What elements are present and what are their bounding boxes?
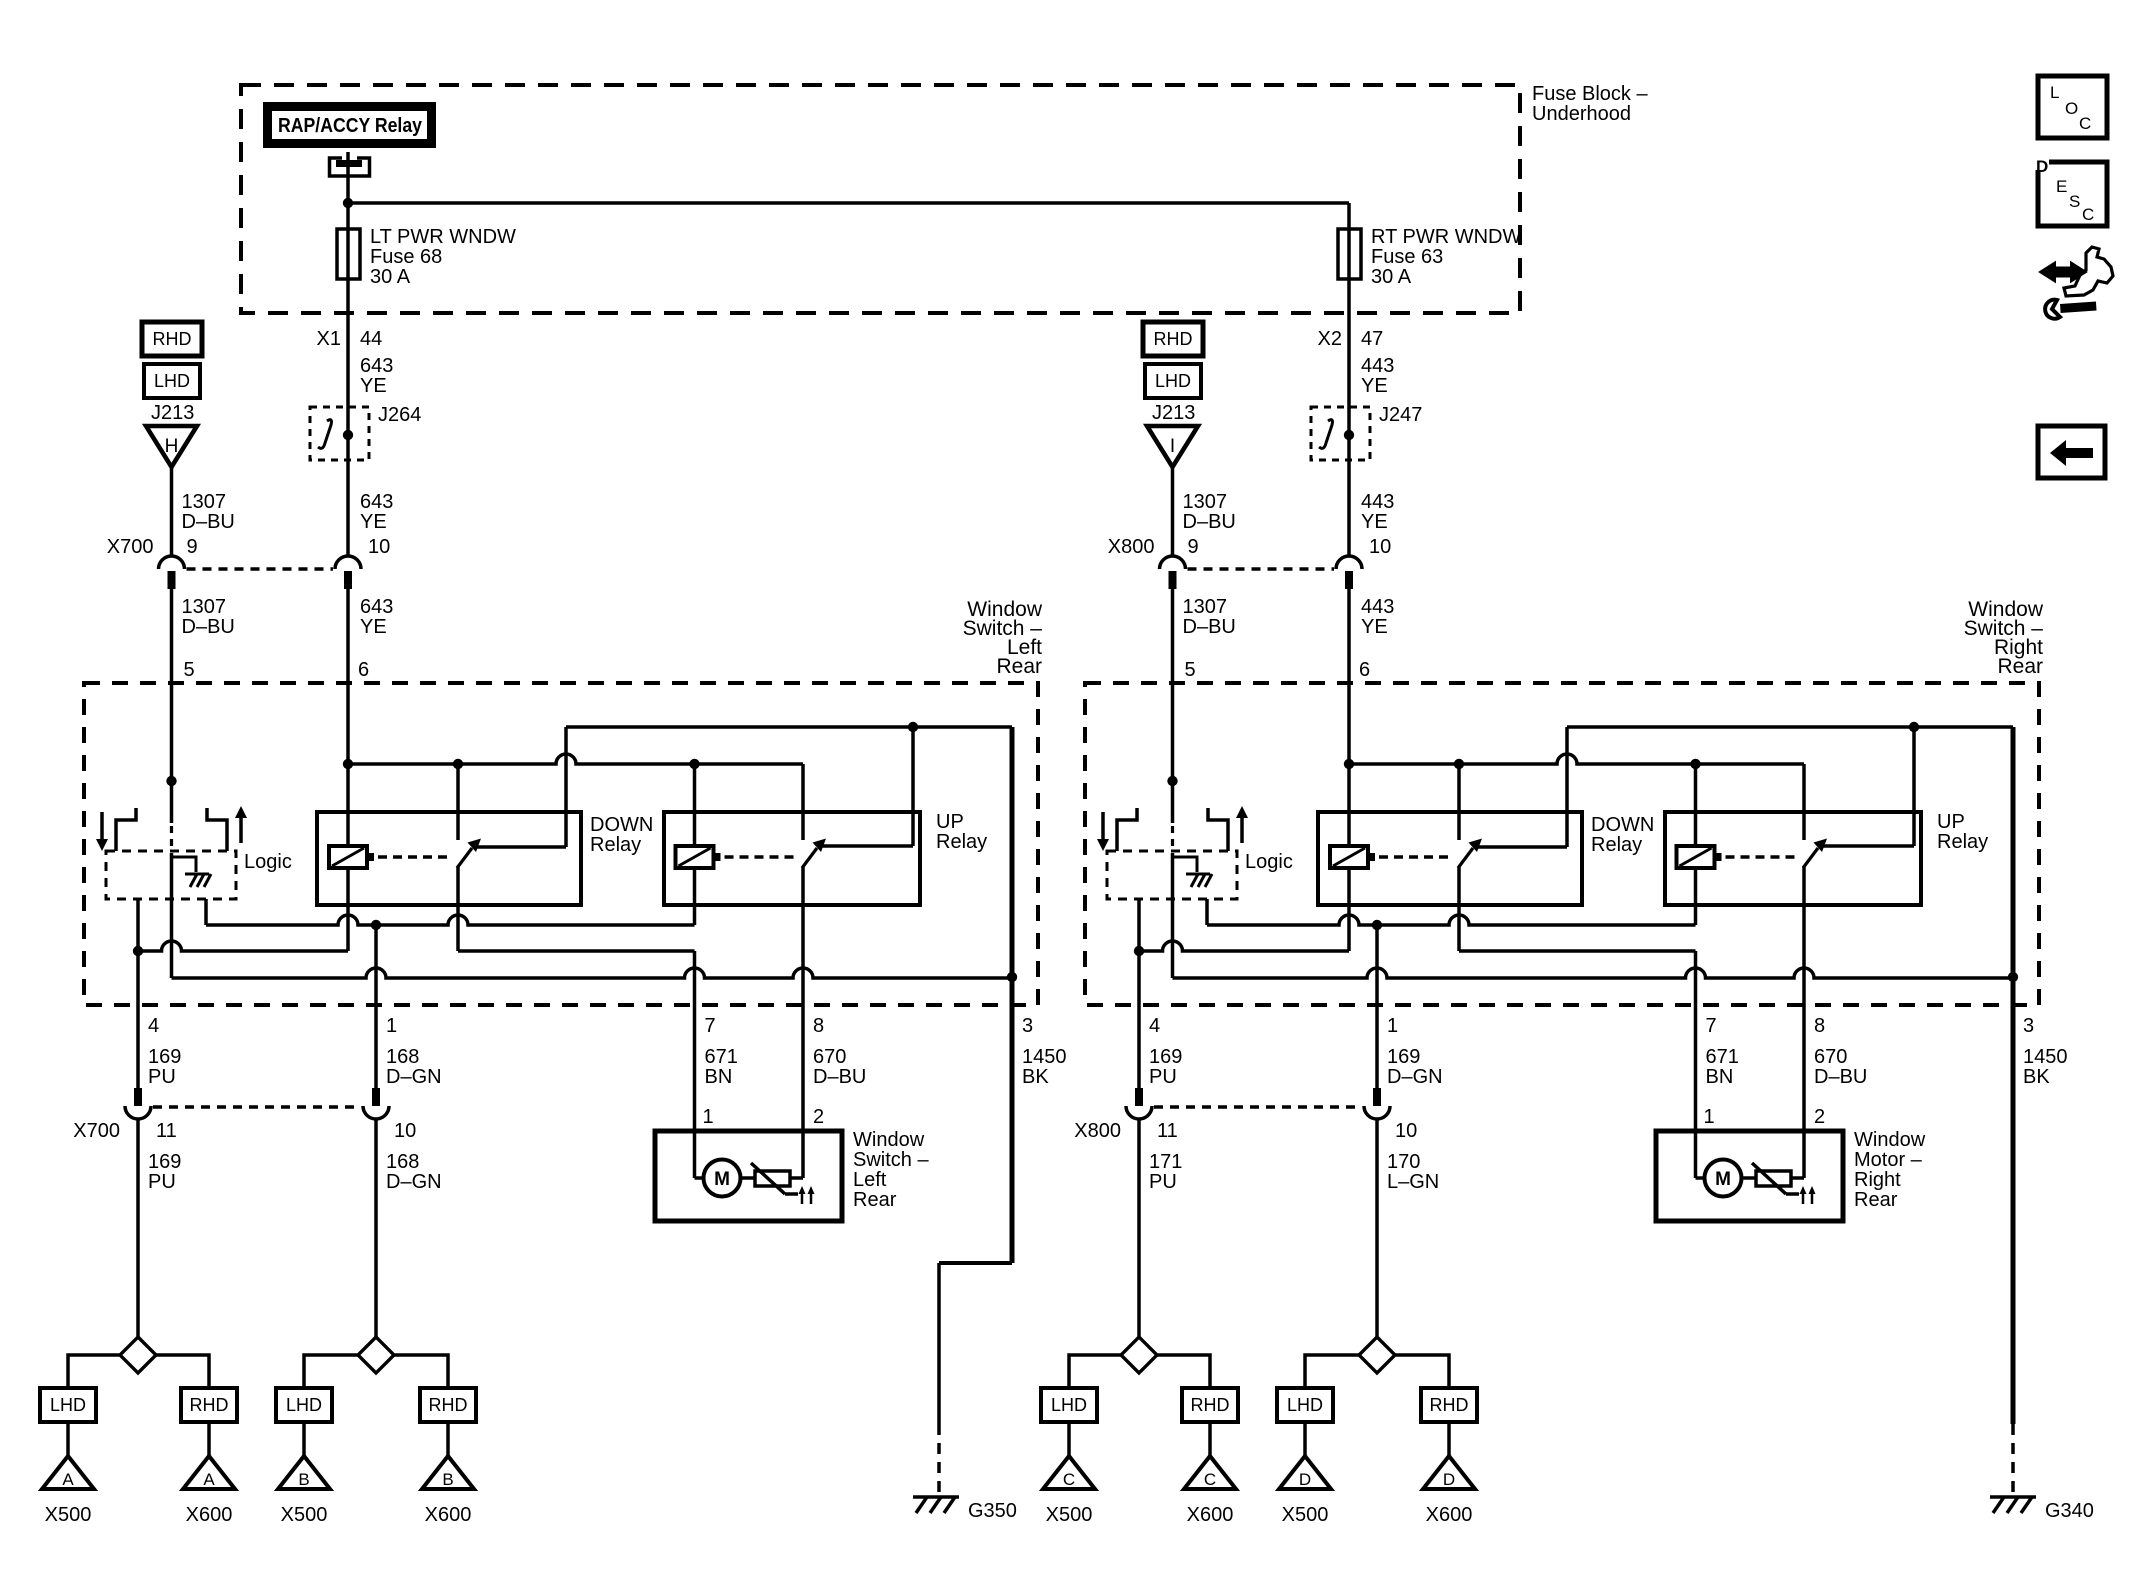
relay coil UP (left) xyxy=(676,846,721,868)
label connector X800 pins 11 10 lower xyxy=(1074,1120,1417,1142)
svg-text:D–GN: D–GN xyxy=(1387,1066,1443,1088)
svg-text:169: 169 xyxy=(1387,1046,1420,1068)
wire DOWN fixed contact (left) xyxy=(474,727,566,847)
dashed connector tie X700 lower xyxy=(153,1105,361,1109)
wire pin6 to DOWN coil (left) xyxy=(346,683,350,846)
wire DOWN fixed contact (right) xyxy=(1475,727,1567,847)
svg-text:2: 2 xyxy=(813,1106,824,1128)
svg-text:670: 670 xyxy=(1814,1046,1847,1068)
up arrow symbol (right) xyxy=(1236,806,1248,843)
wire pin5 inside switch (right) xyxy=(1171,683,1175,781)
svg-text:6: 6 xyxy=(1359,659,1370,681)
svg-text:1450: 1450 xyxy=(1022,1046,1067,1068)
dashed connector tie X800 lower xyxy=(1154,1105,1362,1109)
svg-text:D–BU: D–BU xyxy=(1183,511,1236,533)
wire diamond to LHD right pin1 branch xyxy=(1305,1355,1359,1388)
wire 1307 D-BU to switch pin5 (right) xyxy=(1171,589,1175,683)
mechanical dashed link (right) xyxy=(1171,826,1174,851)
label wire 670 D-BU pin8 (right) xyxy=(1814,1046,1867,1088)
down arrow symbol (left) xyxy=(96,812,108,851)
box RHD right pin1 branch xyxy=(1421,1388,1477,1422)
svg-text:Relay: Relay xyxy=(590,834,641,856)
box RHD (right) xyxy=(1143,322,1203,356)
label X600 right pin4 branch xyxy=(1187,1504,1234,1526)
svg-text:YE: YE xyxy=(1361,375,1388,397)
label pin 5 (right) xyxy=(1185,659,1196,681)
svg-text:30 A: 30 A xyxy=(1371,266,1412,288)
label G340 xyxy=(2045,1500,2094,1522)
svg-text:X2: X2 xyxy=(1318,328,1342,350)
label pin 1 (left) xyxy=(386,1015,397,1037)
node junction UP coil feed (right) xyxy=(1690,759,1700,769)
svg-text:L: L xyxy=(2050,83,2059,102)
svg-text:RHD: RHD xyxy=(153,329,192,349)
label pin 1 (right) xyxy=(1387,1015,1398,1037)
label wire 443 YE lower xyxy=(1361,596,1394,638)
icon box LOC xyxy=(2038,76,2107,138)
wire 643 to switch pin6 (left) xyxy=(346,589,350,683)
label X500 left pin4 branch xyxy=(45,1504,92,1526)
node junction pin4 bus (left) xyxy=(133,946,143,956)
svg-text:C: C xyxy=(2082,205,2094,224)
node splice dot J264 xyxy=(343,430,353,440)
label wire 1450 BK pin3 (left) xyxy=(1022,1046,1067,1088)
bus pin4 to DOWN coil (left) xyxy=(138,868,348,951)
wire through logic box (left) xyxy=(170,853,174,978)
node junction on pin5 wire (right) xyxy=(1167,776,1177,786)
label pin 5 (left) xyxy=(184,659,195,681)
label wire 643 YE upper xyxy=(360,355,393,397)
svg-text:2: 2 xyxy=(1814,1106,1825,1128)
label wire 1307 D-BU upper (right) xyxy=(1183,491,1236,533)
label connector X700 pins 11 10 lower xyxy=(73,1120,416,1142)
wire 168 to diamond (left) xyxy=(374,1119,378,1337)
svg-text:169: 169 xyxy=(148,1151,181,1173)
svg-text:643: 643 xyxy=(360,355,393,377)
svg-text:C: C xyxy=(2079,114,2091,133)
svg-text:670: 670 xyxy=(813,1046,846,1068)
label X1 pin 44 xyxy=(317,328,383,350)
diamond splice right pin4 branch xyxy=(1121,1337,1157,1373)
dashed actuator DOWN (left) xyxy=(378,855,449,859)
relay box UP (left) xyxy=(664,812,920,905)
switch arm UP relay (left) xyxy=(802,839,826,869)
label Logic (right) xyxy=(1245,851,1293,873)
down contact step (left) xyxy=(116,808,136,851)
wire RHD to triangle left pin1 branch xyxy=(446,1422,450,1456)
down contact step (right) xyxy=(1117,808,1137,851)
svg-text:8: 8 xyxy=(813,1015,824,1037)
svg-text:Switch –: Switch – xyxy=(853,1149,929,1171)
splice J247 dashed box xyxy=(1311,404,1422,460)
label UP Relay (left) xyxy=(936,811,987,853)
label X600 left pin4 branch xyxy=(186,1504,233,1526)
svg-text:10: 10 xyxy=(394,1120,416,1142)
relay coil DOWN (left) xyxy=(329,846,374,868)
label wire 171 PU (right) xyxy=(1149,1151,1182,1193)
logic dashed box (left) xyxy=(106,851,236,899)
connector triangle A X500 left pin4 branch xyxy=(42,1456,94,1489)
up contact step (right) xyxy=(1208,808,1228,851)
label window motor right rear xyxy=(1854,1129,1926,1211)
svg-text:O: O xyxy=(2065,99,2078,118)
ground G340 symbol xyxy=(1990,1497,2036,1513)
wire 1450 BK to G350 xyxy=(939,1005,1012,1493)
label Fuse Block - Underhood xyxy=(1532,83,1648,125)
svg-text:RHD: RHD xyxy=(190,1395,229,1415)
svg-text:D–BU: D–BU xyxy=(1183,616,1236,638)
wire LHD to triangle right pin4 branch xyxy=(1067,1422,1071,1456)
svg-text:G340: G340 xyxy=(2045,1500,2094,1522)
svg-text:30 A: 30 A xyxy=(370,266,411,288)
relay coil DOWN (right) xyxy=(1330,846,1375,868)
wire pin5 inside switch (left) xyxy=(170,683,174,781)
svg-text:Relay: Relay xyxy=(936,831,987,853)
label wire 168 D–GN pin1 (left) xyxy=(386,1046,442,1088)
svg-text:47: 47 xyxy=(1361,328,1383,350)
svg-text:D: D xyxy=(1443,1470,1455,1489)
label wire 170 L–GN (right) xyxy=(1387,1151,1439,1193)
svg-text:D: D xyxy=(1299,1470,1311,1489)
svg-text:7: 7 xyxy=(1706,1015,1717,1037)
box LHD right pin4 branch xyxy=(1041,1388,1097,1422)
svg-text:LHD: LHD xyxy=(1155,371,1191,391)
label pin 7 (right) xyxy=(1706,1015,1717,1037)
svg-text:643: 643 xyxy=(360,491,393,513)
label Logic (left) xyxy=(244,851,292,873)
svg-text:D: D xyxy=(2036,157,2048,176)
node splice dot J247 xyxy=(1344,430,1354,440)
svg-text:Motor –: Motor – xyxy=(1854,1149,1923,1171)
relay coil UP (right) xyxy=(1677,846,1722,868)
ground bus top (left) xyxy=(566,727,1012,1005)
svg-text:RAP/ACCY Relay: RAP/ACCY Relay xyxy=(278,115,423,137)
svg-text:443: 443 xyxy=(1361,491,1394,513)
svg-text:YE: YE xyxy=(360,375,387,397)
label window switch right rear xyxy=(1964,598,2044,678)
wire pin8 to motor (right) xyxy=(1802,1005,1806,1178)
wire through logic box (right) xyxy=(1171,853,1175,978)
bus pin4 to DOWN coil (right) xyxy=(1139,868,1349,951)
wire 1307 D-BU from J213 (left) xyxy=(170,467,174,557)
wire feeder to right fuse xyxy=(348,203,1349,280)
dashed actuator UP (right) xyxy=(1726,855,1796,859)
svg-text:10: 10 xyxy=(1395,1120,1417,1142)
wire diamond to RHD right pin1 branch xyxy=(1395,1355,1449,1388)
svg-text:DOWN: DOWN xyxy=(1591,814,1654,836)
svg-text:X800: X800 xyxy=(1074,1120,1121,1142)
label motor pins 1 2 (left) xyxy=(703,1106,825,1128)
svg-text:DOWN: DOWN xyxy=(590,814,653,836)
logic bus to UP coil (right) xyxy=(1207,868,1696,925)
label wire 443 YE mid xyxy=(1361,491,1394,533)
label UP Relay (right) xyxy=(1937,811,1988,853)
dashed connector tie X800 upper xyxy=(1188,567,1335,571)
label wire 643 YE mid xyxy=(360,491,393,533)
motor thermistor (left) xyxy=(740,1163,803,1194)
label wire 168 D–GN (left) xyxy=(386,1151,442,1193)
svg-text:1: 1 xyxy=(1704,1106,1715,1128)
label pin 8 (right) xyxy=(1814,1015,1825,1037)
wire 443 fuse to connector (right) xyxy=(1347,279,1351,557)
svg-text:5: 5 xyxy=(1185,659,1196,681)
node junction pin1 (right) xyxy=(1372,920,1382,930)
svg-text:YE: YE xyxy=(1361,616,1388,638)
svg-text:LHD: LHD xyxy=(154,371,190,391)
connector X800 pin 10 symbol xyxy=(1336,556,1362,589)
ground hook inside logic (right) xyxy=(1173,857,1213,887)
up contact step (left) xyxy=(207,808,227,851)
node junction DOWN arm feed (right) xyxy=(1454,759,1464,769)
svg-text:X500: X500 xyxy=(1282,1504,1329,1526)
diamond splice right pin1 branch xyxy=(1359,1337,1395,1373)
svg-text:S: S xyxy=(2069,192,2080,211)
svg-text:Fuse 63: Fuse 63 xyxy=(1371,246,1443,268)
svg-text:X500: X500 xyxy=(281,1504,328,1526)
svg-text:PU: PU xyxy=(148,1066,176,1088)
logic box right stub (right) xyxy=(1205,899,1209,925)
fuse F63 RT PWR WNDW xyxy=(1338,229,1361,279)
label pin 4 (right) xyxy=(1149,1015,1160,1037)
label pin 3 (right) xyxy=(2023,1015,2034,1037)
mechanical dashed link (left) xyxy=(170,826,173,851)
svg-text:J213: J213 xyxy=(1152,402,1195,424)
svg-text:671: 671 xyxy=(705,1046,738,1068)
svg-text:A: A xyxy=(62,1470,74,1489)
diamond splice left pin1 branch xyxy=(358,1337,394,1373)
relay box DOWN (right) xyxy=(1318,812,1582,905)
feed bus inside switch (left) xyxy=(348,754,803,840)
logic dashed box (right) xyxy=(1107,851,1237,899)
wire 643 fuse to connector (left) xyxy=(346,279,350,557)
label wire 169 D–GN pin1 (right) xyxy=(1387,1046,1443,1088)
svg-text:LHD: LHD xyxy=(50,1395,86,1415)
svg-text:BK: BK xyxy=(1022,1066,1049,1088)
label wire 169 PU pin4 (left) xyxy=(148,1046,181,1088)
connector triangle A X600 left pin4 branch xyxy=(183,1456,235,1489)
svg-text:9: 9 xyxy=(1188,536,1199,558)
svg-text:3: 3 xyxy=(2023,1015,2034,1037)
wire pin1 to X800 10 (right) xyxy=(1364,1005,1390,1119)
svg-text:Relay: Relay xyxy=(1591,834,1642,856)
svg-text:YE: YE xyxy=(360,511,387,533)
svg-text:1307: 1307 xyxy=(1183,596,1228,618)
svg-text:B: B xyxy=(298,1470,309,1489)
node junction UP contact riser (right) xyxy=(1909,722,1919,732)
ground bus top (right) xyxy=(1567,727,2013,1005)
dashed actuator DOWN (right) xyxy=(1379,855,1450,859)
wire RHD to triangle left pin4 branch xyxy=(207,1422,211,1456)
svg-text:J264: J264 xyxy=(378,404,421,426)
label window switch left rear xyxy=(963,598,1043,678)
window motor box (right) xyxy=(1656,1131,1843,1221)
svg-text:8: 8 xyxy=(1814,1015,1825,1037)
wire diamond to LHD left pin1 branch xyxy=(304,1355,358,1388)
svg-text:H: H xyxy=(165,436,179,457)
switch arm UP relay (right) xyxy=(1803,839,1827,869)
box LHD left pin1 branch xyxy=(276,1388,332,1422)
thermal arrows (left) xyxy=(799,1186,815,1204)
dashed actuator UP (left) xyxy=(725,855,795,859)
svg-text:E: E xyxy=(2056,177,2067,196)
relay K RAP/ACCY label box xyxy=(263,102,436,148)
node junction DOWN arm feed (left) xyxy=(453,759,463,769)
node junction UP contact riser (left) xyxy=(908,722,918,732)
svg-text:169: 169 xyxy=(148,1046,181,1068)
svg-text:170: 170 xyxy=(1387,1151,1420,1173)
label pin 8 (left) xyxy=(813,1015,824,1037)
svg-text:Window: Window xyxy=(1854,1129,1926,1151)
label wire 169 PU (left) xyxy=(148,1151,181,1193)
svg-text:C: C xyxy=(1063,1470,1075,1489)
node junction ground bus to 1450 BK (left) xyxy=(1007,972,1017,982)
svg-text:643: 643 xyxy=(360,596,393,618)
wire pin1 to X700 10 (left) xyxy=(363,1005,389,1119)
node junction pin1 (left) xyxy=(371,920,381,930)
label connector X700 pins 9 10 upper xyxy=(107,536,390,558)
svg-text:Window: Window xyxy=(853,1129,925,1151)
svg-text:M: M xyxy=(714,1169,730,1190)
box RHD left pin1 branch xyxy=(420,1388,476,1422)
up arrow symbol (left) xyxy=(235,806,247,843)
label X500 right pin4 branch xyxy=(1046,1504,1093,1526)
label wire 671 BN pin7 (left) xyxy=(705,1046,738,1088)
connector triangle D X600 right pin1 branch xyxy=(1423,1456,1475,1489)
ground bus lower (right) xyxy=(1173,968,2014,978)
label pin 7 (left) xyxy=(705,1015,716,1037)
icon double arrow with wrench xyxy=(2040,247,2113,319)
wire pin8 to motor (left) xyxy=(801,1005,805,1178)
svg-text:B: B xyxy=(442,1470,453,1489)
wire LHD to triangle left pin4 branch xyxy=(66,1422,70,1456)
label motor pins 1 2 (right) xyxy=(1704,1106,1826,1128)
wire DOWN arm to pin7 bus (left) xyxy=(458,867,695,1005)
svg-text:RHD: RHD xyxy=(1154,329,1193,349)
svg-text:4: 4 xyxy=(148,1015,159,1037)
label pin 6 (left) xyxy=(358,659,369,681)
box RHD right pin4 branch xyxy=(1182,1388,1238,1422)
wire relay to fuses junction xyxy=(346,167,350,280)
svg-text:Logic: Logic xyxy=(244,851,292,873)
svg-text:LHD: LHD xyxy=(1287,1395,1323,1415)
label wire 670 D-BU pin8 (left) xyxy=(813,1046,866,1088)
down arrow symbol (right) xyxy=(1097,812,1109,851)
box LHD (right) xyxy=(1145,364,1201,398)
svg-text:11: 11 xyxy=(1157,1120,1178,1142)
label wire 169 PU pin4 (right) xyxy=(1149,1046,1182,1088)
svg-text:C: C xyxy=(1204,1470,1216,1489)
svg-text:PU: PU xyxy=(1149,1171,1177,1193)
svg-text:D–BU: D–BU xyxy=(813,1066,866,1088)
svg-text:1450: 1450 xyxy=(2023,1046,2068,1068)
svg-text:X600: X600 xyxy=(425,1504,472,1526)
box RHD left pin4 branch xyxy=(181,1388,237,1422)
wire diamond to RHD left pin4 branch xyxy=(156,1355,209,1388)
box RHD (left) xyxy=(142,322,202,356)
svg-text:171: 171 xyxy=(1149,1151,1182,1173)
svg-text:X600: X600 xyxy=(186,1504,233,1526)
svg-text:LHD: LHD xyxy=(1051,1395,1087,1415)
wire diamond to LHD left pin4 branch xyxy=(68,1355,120,1388)
svg-text:I: I xyxy=(1170,436,1175,457)
wire LHD to triangle right pin1 branch xyxy=(1303,1422,1307,1456)
svg-text:L–GN: L–GN xyxy=(1387,1171,1439,1193)
node junction pin4 bus (right) xyxy=(1134,946,1144,956)
wire LHD to triangle left pin1 branch xyxy=(302,1422,306,1456)
svg-text:Rear: Rear xyxy=(996,655,1042,678)
label splice J213 (right) xyxy=(1152,402,1195,424)
splice J264 dashed box xyxy=(310,404,421,460)
label wire 1450 BK pin3 (right) xyxy=(2023,1046,2068,1088)
label pin 3 (left) xyxy=(1022,1015,1033,1037)
svg-text:X800: X800 xyxy=(1108,536,1155,558)
svg-text:1: 1 xyxy=(1387,1015,1398,1037)
wire 443 to switch pin6 (right) xyxy=(1347,589,1351,683)
label fuse 68 xyxy=(370,226,516,288)
wire 171 PU to diamond (right) xyxy=(1137,1119,1141,1337)
svg-text:Underhood: Underhood xyxy=(1532,103,1631,125)
wire RHD to triangle right pin1 branch xyxy=(1447,1422,1451,1456)
svg-text:RHD: RHD xyxy=(1191,1395,1230,1415)
svg-text:YE: YE xyxy=(360,616,387,638)
connector triangle B X600 left pin1 branch xyxy=(422,1456,474,1489)
dashed connector tie X700 upper xyxy=(187,567,334,571)
svg-text:X600: X600 xyxy=(1426,1504,1473,1526)
svg-text:Right: Right xyxy=(1854,1169,1901,1191)
label X500 left pin1 branch xyxy=(281,1504,328,1526)
wire UP arm to pin8 (right) xyxy=(1802,867,1806,1005)
svg-text:J247: J247 xyxy=(1379,404,1422,426)
svg-text:X1: X1 xyxy=(317,328,341,350)
svg-text:10: 10 xyxy=(1369,536,1391,558)
wire pin7 to motor (left) xyxy=(695,1005,705,1178)
ground bus lower (left) xyxy=(172,968,1013,978)
relay box DOWN (left) xyxy=(317,812,581,905)
svg-text:J213: J213 xyxy=(151,402,194,424)
fuse block underhood dashed box xyxy=(241,85,1520,313)
svg-text:11: 11 xyxy=(156,1120,177,1142)
svg-text:9: 9 xyxy=(187,536,198,558)
svg-text:Logic: Logic xyxy=(1245,851,1293,873)
svg-text:D–GN: D–GN xyxy=(386,1066,442,1088)
wire UP coil feed (left) xyxy=(693,764,697,846)
svg-text:PU: PU xyxy=(1149,1066,1177,1088)
wire DOWN arm to pin7 bus (right) xyxy=(1459,867,1696,1005)
connector triangle C X600 right pin4 branch xyxy=(1184,1456,1236,1489)
connector X800 pin 9 symbol xyxy=(1160,556,1186,589)
label wire 443 YE upper xyxy=(1361,355,1394,397)
motor M (right) xyxy=(1705,1160,1742,1197)
svg-text:LHD: LHD xyxy=(286,1395,322,1415)
svg-text:1: 1 xyxy=(386,1015,397,1037)
icon box DESC xyxy=(2035,157,2107,226)
svg-text:RHD: RHD xyxy=(429,1395,468,1415)
wire diamond to RHD left pin1 branch xyxy=(394,1355,448,1388)
label wire 1307 D-BU lower (right) xyxy=(1183,596,1236,638)
svg-text:5: 5 xyxy=(184,659,195,681)
ground G350 symbol xyxy=(913,1497,959,1513)
label fuse 63 xyxy=(1371,226,1521,288)
svg-text:D–BU: D–BU xyxy=(1814,1066,1867,1088)
label X600 left pin1 branch xyxy=(425,1504,472,1526)
label connector X800 pins 9 10 upper xyxy=(1108,536,1391,558)
window switch right rear dashed box xyxy=(1085,683,2039,1005)
connector triangle H J213 xyxy=(146,426,197,467)
wire UP coil feed (right) xyxy=(1694,764,1698,846)
svg-text:X700: X700 xyxy=(73,1120,120,1142)
label wire 643 YE lower xyxy=(360,596,393,638)
wire 170 to diamond (right) xyxy=(1375,1119,1379,1337)
